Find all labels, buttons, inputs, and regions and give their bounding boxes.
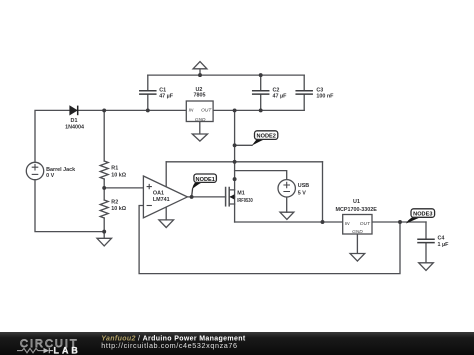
- wire: C3 leads: [303, 75, 305, 110]
- M1 source/body/drain stubs: [229, 190, 234, 204]
- junction: C2 bottom / U2 OUT rail: [259, 108, 263, 112]
- wire: C2 leads: [260, 75, 262, 110]
- transistor M1 gate bar: [225, 188, 227, 206]
- svg-text:5 V: 5 V: [298, 191, 306, 197]
- wire: 5V rail: [166, 161, 322, 163]
- capacitor C3: [296, 91, 312, 94]
- svg-text:IRF9530: IRF9530: [237, 198, 252, 204]
- node NODE1 flag: [192, 174, 217, 197]
- svg-text:D1: D1: [71, 118, 78, 124]
- ground (op-amp V-): [159, 220, 174, 228]
- wire: barrel jack top to U2 IN: [35, 110, 186, 162]
- wire: U1 OUT to C4: [372, 221, 426, 223]
- svg-text:LM741: LM741: [153, 197, 170, 203]
- ground (C4): [419, 263, 434, 271]
- junction: power flag stem / top rail: [198, 73, 202, 77]
- capacitor C2: [253, 91, 269, 94]
- wire: USB - stub: [286, 197, 288, 212]
- svg-text:M1: M1: [237, 191, 245, 197]
- logo zigzag: [17, 348, 44, 352]
- pin labels: [189, 107, 371, 235]
- resistor R1: [100, 161, 108, 179]
- wire: C4 leads: [425, 222, 427, 263]
- svg-text:GND: GND: [195, 117, 206, 123]
- IC U2 7805: [186, 101, 213, 122]
- junction: 5V rail / NODE2 vertical: [233, 160, 237, 164]
- M1 body junction dot: [233, 177, 237, 181]
- ground (U2 GND): [192, 122, 207, 142]
- wire: op-amp V- stub: [165, 207, 167, 220]
- svg-text:GND: GND: [352, 229, 363, 235]
- junction: C2 top / top rail: [259, 73, 263, 77]
- svg-text:LAB: LAB: [54, 346, 81, 355]
- wire: 5V rail down to U1 IN rail: [322, 162, 324, 222]
- svg-text:0 V: 0 V: [46, 173, 54, 179]
- svg-text:MCP1700-3302E: MCP1700-3302E: [336, 207, 378, 213]
- ground (USB): [280, 212, 294, 219]
- wire: C1 leads: [147, 75, 149, 110]
- svg-text:47 µF: 47 µF: [273, 94, 288, 100]
- resistor R2: [100, 200, 108, 218]
- svg-text:OA1: OA1: [153, 191, 164, 197]
- junction: op-amp output / NODE1: [190, 195, 194, 199]
- ground (R2 / barrel jack): [97, 232, 112, 246]
- wire: barrel jack bottom to ground rail: [35, 180, 104, 232]
- op-amp OA1: [143, 176, 187, 218]
- wire: NODE3 feedback to op-amp - input: [139, 206, 400, 274]
- svg-text:IN: IN: [345, 221, 350, 227]
- svg-text:OUT: OUT: [360, 221, 371, 227]
- wire: NODE2 stub: [235, 144, 252, 146]
- junction: C1 / input wire: [146, 108, 150, 112]
- capacitor C4: [418, 239, 434, 242]
- svg-text:C4: C4: [438, 236, 445, 242]
- junction: U1 OUT / NODE3 / feedback: [398, 220, 402, 224]
- junction: NODE2 wire / U2 OUT rail: [233, 108, 237, 112]
- svg-text:U1: U1: [353, 199, 360, 205]
- wire: M1 source loop to USB +: [235, 171, 287, 180]
- svg-text:1 µF: 1 µF: [438, 242, 450, 248]
- svg-text:10 kΩ: 10 kΩ: [111, 173, 126, 179]
- svg-text:OUT: OUT: [201, 107, 212, 113]
- junction: diode cathode / R1: [102, 108, 106, 112]
- junction: R1/R2 divider node: [102, 186, 106, 190]
- svg-text:USB: USB: [298, 183, 309, 189]
- svg-text:1N4004: 1N4004: [65, 124, 84, 130]
- power flag stem: [199, 69, 201, 75]
- svg-text:100 nF: 100 nF: [316, 94, 334, 100]
- transistor M1 arrow: [230, 194, 235, 199]
- bottom bar: [0, 332, 474, 355]
- IC U1 MCP1700: [343, 215, 372, 235]
- wire: top rail: [148, 74, 304, 76]
- svg-text:7805: 7805: [194, 93, 206, 99]
- wire: U2 OUT rail: [213, 109, 304, 111]
- node NODE2 flag: [251, 131, 277, 146]
- wire: R2 top lead: [103, 188, 105, 200]
- power flag arrow: [193, 62, 207, 69]
- svg-text:47 µF: 47 µF: [159, 94, 174, 100]
- svg-text:NODE3: NODE3: [413, 212, 432, 218]
- svg-text:IN: IN: [189, 107, 194, 113]
- svg-text:R1: R1: [111, 166, 118, 172]
- wire: R2 bottom lead: [103, 218, 105, 232]
- ground (U1 GND): [350, 234, 365, 261]
- source USB: [278, 180, 295, 197]
- svg-text:NODE2: NODE2: [257, 134, 276, 140]
- capacitor C1: [140, 91, 156, 94]
- source Barrel Jack: [26, 162, 43, 179]
- wire: NODE2 vertical (U2 OUT down to 5V rail and M1): [234, 110, 236, 222]
- wire: R1 bottom / divider node to op-amp +: [104, 179, 143, 188]
- junction: ground rail / R2 bottom: [102, 230, 106, 234]
- wire: op-amp V+ stub: [165, 162, 167, 187]
- transistor M1 channel bar: [228, 188, 230, 206]
- junction: NODE2 flag stub: [233, 143, 237, 147]
- svg-text:10 kΩ: 10 kΩ: [111, 206, 126, 212]
- svg-text:NODE1: NODE1: [196, 177, 215, 183]
- wire: op-amp output to M1 gate: [187, 196, 225, 198]
- diode D1: [70, 106, 78, 116]
- svg-text:R2: R2: [111, 200, 118, 206]
- wire: M1 drain rail to U1 IN: [235, 221, 343, 223]
- logo diode: [44, 348, 50, 353]
- svg-text:http://circuitlab.com/c4e532xq: http://circuitlab.com/c4e532xqnza76: [101, 341, 237, 350]
- wire: R1 top lead: [103, 110, 105, 161]
- svg-text:Barrel Jack: Barrel Jack: [46, 167, 75, 173]
- node NODE3 flag: [406, 209, 435, 224]
- junction: 5V drop / U1 IN rail: [321, 220, 325, 224]
